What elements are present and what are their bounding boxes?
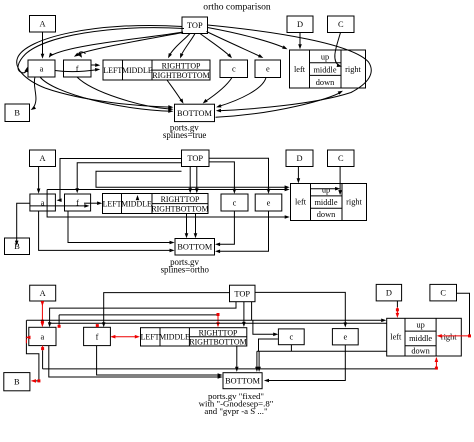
node TOP (d1) [182, 17, 208, 34]
svg-text:splines=true: splines=true [163, 130, 207, 140]
svg-text:TOP: TOP [187, 154, 203, 163]
svg-text:f: f [96, 332, 99, 341]
edge C->right (d2) [339, 167, 341, 193]
svg-text:a: a [40, 64, 44, 73]
edge D->left red (d3) [396, 301, 398, 307]
edge A->a red (d3) [41, 301, 43, 325]
node A (d1) [30, 16, 56, 33]
edge e->BOTTOM (d3) [266, 345, 346, 381]
node c (d3) [278, 329, 304, 345]
edge TOP->f (d3) [104, 293, 230, 325]
svg-text:right: right [346, 198, 362, 207]
svg-text:C: C [338, 20, 344, 29]
edge A->a (d1) [42, 32, 44, 56]
svg-text:C: C [440, 289, 446, 298]
svg-text:e: e [343, 333, 347, 342]
svg-text:A: A [40, 289, 46, 298]
edge a->LEFT (d1) [55, 70, 97, 72]
edge TOP->a (d1) [51, 32, 183, 56]
edge TOP->c (d3) [253, 320, 276, 334]
edge TOP->left upper channel (d2) [96, 171, 287, 187]
edge C->right (d1) [335, 33, 341, 66]
node a (d2) [30, 194, 56, 211]
svg-text:up: up [322, 186, 330, 195]
edge big left oval upper (d1) [17, 25, 183, 88]
edge e->BOTTOM (d1) [219, 78, 267, 107]
edge bracket around a with red west arrow (d3) [26, 320, 39, 381]
edge TOP->RIGHT part (d3) [243, 302, 245, 325]
node c (d1) [220, 60, 248, 78]
svg-text:LEFT: LEFT [103, 199, 122, 208]
edge channel to RIGHTTOP red head (d3) [59, 315, 218, 325]
svg-text:D: D [386, 289, 392, 298]
svg-text:RIGHTBOTTOM: RIGHTBOTTOM [151, 204, 208, 213]
record node LEFT MIDDLE RIGHTTOP RIGHTBOTTOM (d2) [103, 194, 209, 214]
svg-text:D: D [297, 20, 303, 29]
edge channel 351 (d3) [257, 345, 387, 352]
edge TOP->RIGHTTOP (d2) [189, 167, 191, 191]
svg-text:MIDDLE: MIDDLE [159, 333, 190, 342]
edge C->right red (d3) [457, 293, 470, 336]
svg-text:right: right [441, 333, 457, 342]
node e (d1) [255, 60, 281, 78]
edge f->BOTTOM (d2) [68, 211, 172, 243]
svg-text:middle: middle [409, 334, 432, 343]
node BOTTOM (d1) [175, 104, 215, 121]
edge TOP->e (d1) [207, 32, 262, 58]
svg-text:C: C [338, 154, 344, 163]
record node left up middle down right (d2) [291, 184, 367, 221]
node D (d1) [287, 16, 313, 33]
edge RIGHTTOP->BOTTOM (d2) [186, 214, 188, 236]
svg-text:c: c [232, 65, 236, 74]
svg-text:A: A [39, 154, 45, 163]
edge RIGHTBOTTOM->BOTTOM (d1) [167, 80, 182, 102]
svg-text:up: up [321, 53, 329, 62]
svg-text:left: left [294, 65, 306, 74]
edge mid channel into left (d2) [47, 189, 287, 191]
node a (d3) [29, 327, 56, 345]
node B (d3) [4, 373, 30, 391]
edge big right oval (d1) [208, 25, 372, 111]
edge TOP->left (d3) [27, 302, 384, 321]
svg-text:left: left [390, 333, 402, 342]
svg-text:RIGHTTOP: RIGHTTOP [161, 195, 200, 204]
edge TOP->left (d1) [208, 28, 286, 49]
edge loop into a west (d1) [18, 28, 184, 73]
svg-text:LEFT: LEFT [103, 66, 122, 75]
svg-text:BOTTOM: BOTTOM [177, 243, 213, 252]
edge c->BOTTOM (d2) [217, 211, 234, 244]
edge TOP->f loop (d1) [79, 52, 86, 57]
svg-text:TOP: TOP [234, 289, 250, 298]
edge a->f east port (d2) [30, 205, 87, 207]
svg-text:RIGHTTOP: RIGHTTOP [162, 61, 201, 70]
edge riser to c west (d3) [259, 339, 278, 351]
node e (d2) [255, 194, 282, 211]
svg-text:c: c [289, 333, 293, 342]
edge TOP->RIGHTBOTTOM (d2) [196, 167, 198, 191]
edge a red tick to channel (d3) [42, 350, 44, 369]
svg-text:and "gvpr -a S ...": and "gvpr -a S ..." [204, 406, 268, 416]
node D (d3) [376, 284, 401, 301]
svg-text:B: B [14, 109, 20, 118]
svg-text:e: e [266, 65, 270, 74]
edge f->LEFT (d2) [84, 202, 100, 204]
svg-text:middle: middle [314, 198, 337, 207]
node c (d2) [221, 194, 248, 211]
node B (d2) [5, 238, 30, 255]
svg-text:middle: middle [313, 65, 336, 74]
record node with cells LEFT MIDDLE RIGHTTOP RIGHTBOTTOM (d1) [103, 60, 210, 80]
svg-text:MIDDLE: MIDDLE [121, 199, 152, 208]
node B (d1) [5, 104, 30, 122]
edge up into down cell (d1) [216, 92, 341, 117]
edge D->left (d2) [297, 167, 299, 182]
node C (d2) [328, 150, 355, 167]
svg-text:down: down [316, 78, 335, 87]
svg-text:BOTTOM: BOTTOM [177, 109, 213, 118]
edge f->LEFT (d1) [91, 64, 98, 66]
svg-text:right: right [345, 65, 361, 74]
node a (d1) [28, 60, 55, 77]
edge TOP->RIGHTBOTTOM (d1) [181, 34, 195, 57]
node A (d2) [30, 150, 56, 167]
edge f->BOTTOM (d3) [97, 346, 221, 375]
node D (d2) [286, 150, 313, 167]
svg-text:ortho comparison: ortho comparison [203, 2, 271, 13]
svg-text:up: up [416, 321, 424, 330]
edge TOP->a (d2) [59, 159, 182, 201]
edge long channel (d3) [49, 322, 386, 324]
edge TOP->e (d2) [209, 158, 269, 191]
svg-text:RIGHTBOTTOM: RIGHTBOTTOM [152, 71, 209, 80]
svg-text:LEFT: LEFT [141, 333, 160, 342]
edge a->BOTTOM (d1) [40, 77, 171, 111]
node TOP (d3) [230, 285, 256, 302]
node e (d3) [332, 329, 358, 345]
svg-text:RIGHTBOTTOM: RIGHTBOTTOM [189, 337, 246, 346]
svg-text:TOP: TOP [187, 21, 203, 30]
svg-text:a: a [41, 332, 45, 341]
edge head into MIDDLE (d2) [137, 197, 139, 200]
edge record->BOTTOM (d3) [236, 346, 238, 370]
edge TOP->c (d2) [209, 162, 234, 192]
svg-text:down: down [411, 347, 430, 356]
edge TOP->e (d3) [255, 292, 345, 325]
svg-text:splines=ortho: splines=ortho [161, 265, 210, 275]
svg-text:RIGHTTOP: RIGHTTOP [199, 328, 238, 337]
node BOTTOM (d2) [175, 239, 215, 256]
svg-text:down: down [317, 210, 336, 219]
edge f->BOTTOM (d1) [77, 77, 171, 109]
node C (d1) [328, 16, 355, 33]
edge big left oval lower to BOTTOM (d1) [45, 88, 171, 107]
edge a->BOTTOM (d2) [39, 211, 173, 250]
edge TOP->RIGHTTOP (d1) [169, 34, 190, 57]
edge c->BOTTOM (d1) [205, 78, 233, 103]
edge TOP->f (d2) [77, 163, 181, 191]
svg-text:B: B [14, 378, 20, 387]
edge RIGHTBOTTOM->BOTTOM (d2) [195, 214, 197, 236]
record node LEFT MIDDLE RIGHTTOP RIGHTBOTTOM (d3) [141, 328, 247, 346]
svg-text:c: c [233, 198, 237, 207]
edge f->LEFT red both arrows (d3) [112, 336, 138, 338]
edge D->left (d1) [299, 33, 301, 47]
node f (d3) [84, 327, 111, 345]
edge a->BOTTOM (d3) [49, 346, 221, 377]
node TOP (d2) [182, 150, 210, 167]
node BOTTOM (d3) [223, 373, 262, 389]
svg-text:BOTTOM: BOTTOM [225, 377, 261, 386]
edge a->B (d1) [33, 77, 36, 108]
edge a->B (d2) [17, 203, 30, 243]
svg-text:A: A [39, 20, 45, 29]
svg-text:left: left [295, 198, 307, 207]
edge TOP->c (d1) [200, 34, 231, 57]
edge channel 369 with red up arrow (d3) [43, 368, 437, 370]
svg-text:D: D [296, 154, 302, 163]
edge A->a (d2) [38, 167, 40, 192]
svg-text:e: e [267, 198, 271, 207]
node A (d3) [30, 285, 56, 301]
edge up->right (d2) [311, 188, 338, 190]
node f (d2) [65, 194, 91, 211]
node f (d1) [64, 60, 92, 77]
edge low channel into left-sw (d2) [47, 190, 288, 218]
node C (d3) [430, 284, 457, 301]
edge e->BOTTOM (d2) [217, 211, 268, 251]
record node with cells left up middle down right (d1) [290, 50, 366, 88]
svg-text:MIDDLE: MIDDLE [122, 66, 153, 75]
edge pair into BOTTOM top (d3) [257, 351, 259, 370]
record node left up middle down right (d3) [387, 318, 462, 356]
edge TOP->a (d3) [50, 302, 236, 325]
